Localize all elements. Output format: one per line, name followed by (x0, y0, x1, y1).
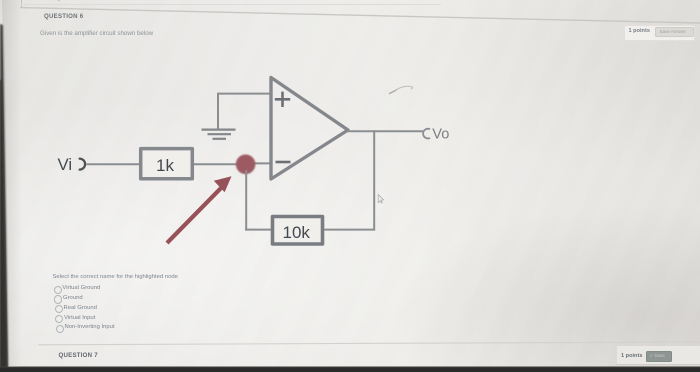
svg-text:1k: 1k (156, 156, 174, 175)
top status bar remnants (21, 0, 22, 8)
wire feedback: node down (245, 170, 247, 231)
input terminal Vi (58, 155, 86, 174)
resistor R2 10k (273, 217, 323, 245)
output terminal Vo (423, 126, 449, 142)
wire Vi to R1 (87, 163, 140, 165)
resistor R1 1k (141, 149, 193, 179)
bottom-right points panel (616, 346, 700, 365)
node A : highlighted inverting-input node (236, 155, 256, 175)
svg-text:10k: 10k (283, 223, 311, 242)
wire R2 to feedback branch (324, 229, 375, 231)
QUESTION 7 header (59, 352, 98, 359)
wire node to op-amp inverting input (245, 162, 271, 164)
options (53, 274, 178, 280)
op-amp U1 (271, 78, 348, 180)
tilted question-block top border (0, 0, 700, 30)
wire non-inverting input to ground (218, 94, 271, 129)
mouse cursor (378, 195, 383, 204)
svg-text:Vi: Vi (58, 155, 73, 174)
annotation arrow pointing to node (167, 176, 232, 243)
bottom divider (0, 335, 700, 347)
ground (202, 130, 236, 139)
wire feedback branch up to output (373, 130, 375, 230)
top-right points panel (624, 25, 695, 42)
QUESTION 6 header (44, 13, 83, 20)
wire to R2 (245, 229, 271, 231)
wire op-amp output (347, 130, 423, 132)
wire R1 to node (194, 163, 240, 165)
annotation squiggle (390, 86, 413, 93)
svg-text:Vo: Vo (432, 126, 449, 142)
